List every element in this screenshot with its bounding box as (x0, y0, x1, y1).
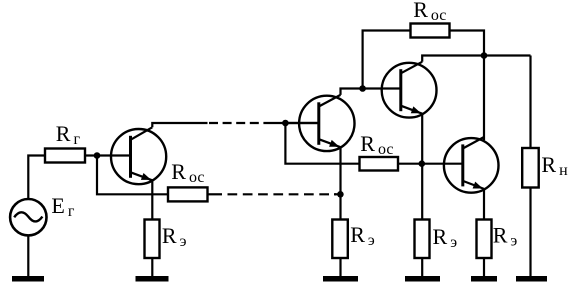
svg-text:Rэ: Rэ (162, 223, 187, 250)
transistor Q2 (285, 95, 354, 151)
ground (source) (12, 276, 44, 282)
node C (Rос3 left junction) (359, 85, 366, 92)
node F (Q2 emitter / feedback junction) (337, 191, 344, 198)
node B (Q2 base junction) (282, 120, 289, 127)
resistor Rос3 (411, 24, 450, 38)
wire Rн top (529, 56, 531, 149)
wire Rос2 to node D and Q4 base (398, 163, 463, 165)
svg-text:Eг: Eг (51, 193, 74, 220)
wire Q3 collector up and right to Rн (422, 56, 530, 62)
svg-text:Rос: Rос (171, 159, 204, 186)
ground (Rэ4) (471, 276, 497, 282)
resistor Rэ1 (145, 220, 160, 259)
node D (Q3 emitter / Q4 base junction) (419, 160, 426, 167)
wire Rэ1 to ground (151, 258, 153, 277)
wire Q1 emitter down to Rэ1 (151, 180, 153, 219)
wire Q2 collector up and right to Q3 base (341, 89, 401, 95)
wire Rэ2 to ground (339, 258, 341, 277)
resistor Rг (45, 149, 85, 163)
sine symbol (14, 212, 42, 221)
wire Rэ4 to ground (483, 258, 485, 277)
feedback wire node A down (97, 156, 168, 195)
source Eг (10, 199, 46, 235)
node E (output junction) (481, 52, 488, 59)
ground (Rэ3) (405, 276, 440, 282)
ground (Rэ1) (136, 276, 169, 282)
resistor Rэ4 (477, 220, 492, 259)
svg-text:Rэ: Rэ (433, 224, 458, 251)
resistor Rэ2 (332, 220, 348, 259)
wire Rос3 right to node E (450, 31, 485, 56)
transistor Q4 (444, 137, 499, 193)
wire Q1 collector top solid (152, 123, 207, 127)
resistor Rн (522, 148, 539, 188)
svg-text:Rэ: Rэ (350, 222, 375, 249)
feedback wire node B to Q2 emitter (285, 123, 340, 164)
wire Rэ3 to ground (421, 258, 423, 277)
ground (Rэ2) (323, 276, 358, 282)
ground (Rн) (516, 276, 547, 282)
resistor Rэ3 (415, 220, 430, 259)
svg-text:Rн: Rн (541, 152, 568, 179)
wire Q4 emitter down to Rэ4 (483, 189, 485, 220)
transistor Q1 (111, 127, 166, 184)
wire Q2 emitter down (339, 147, 341, 219)
svg-text:Rг: Rг (56, 121, 81, 148)
wire Rг to node A (85, 154, 111, 156)
wire Q3 emitter down to Rэ3 (421, 114, 423, 220)
svg-text:Rос: Rос (413, 0, 446, 24)
wire Rос3 left to node C (363, 31, 411, 89)
wire Q2 emitter to Rос2 (341, 163, 360, 165)
node A (base Q1 junction) (94, 152, 101, 159)
transistor Q3 (382, 62, 437, 118)
wire source bottom to ground (27, 236, 29, 278)
dashed coupling wire stage1-stage2 (top) (209, 122, 266, 124)
resistor Rос1 (168, 187, 208, 201)
wire to Q2 base (266, 122, 319, 124)
wire source top to Rг (28, 156, 45, 199)
svg-text:Rэ: Rэ (493, 223, 518, 250)
wire Rос1 right stub (208, 193, 223, 195)
wire node E down to Q4 collector (483, 56, 485, 141)
resistor Rос2 (360, 157, 399, 171)
wire Rн to ground (529, 188, 531, 278)
svg-text:Rос: Rос (360, 131, 393, 158)
dashed feedback wire to Q2 emitter (228, 193, 337, 195)
